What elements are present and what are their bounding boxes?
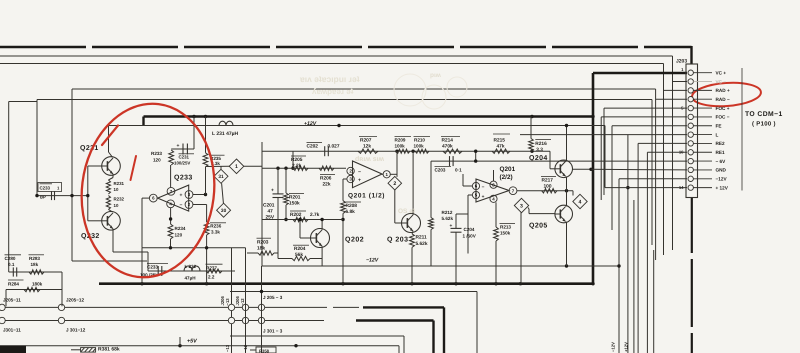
label Q232 — [81, 233, 100, 240]
faint print-through — [299, 72, 467, 215]
svg-text:150k: 150k — [289, 200, 300, 206]
wire bent line upper — [230, 292, 477, 353]
pin 6 of Q201 — [463, 174, 480, 190]
wire right dashed page border below connector — [691, 197, 693, 353]
svg-text:Q233: Q233 — [174, 175, 193, 182]
pin 7 of Q233 — [167, 165, 175, 195]
wire +12V to pin 14 — [605, 126, 687, 188]
resistor R210 — [414, 137, 431, 154]
svg-text:+: + — [358, 178, 361, 184]
label P100 — [752, 121, 776, 128]
svg-text:+12V: +12V — [624, 342, 629, 352]
transistor Q203 — [395, 151, 421, 232]
resistor R232 — [106, 196, 124, 210]
svg-text:+ 12V: + 12V — [716, 185, 729, 190]
svg-text:R233: R233 — [151, 151, 162, 156]
svg-text:3.3: 3.3 — [536, 147, 543, 153]
svg-text:dʀıʍ sıʍ: dʀıʍ sıʍ — [355, 155, 385, 163]
svg-text:L 232: L 232 — [185, 264, 197, 269]
svg-text:C203: C203 — [435, 168, 446, 173]
label TO CDM-1 — [745, 111, 783, 118]
node 1 diamond — [229, 159, 244, 174]
svg-text:R212: R212 — [442, 210, 453, 215]
wire diamond 1 to mid circuit — [244, 142, 262, 168]
label R381 — [98, 347, 120, 353]
svg-text:FOC −: FOC − — [716, 115, 730, 120]
resistor R216 — [529, 117, 551, 153]
svg-text:100k: 100k — [395, 144, 406, 149]
svg-text:C233: C233 — [40, 186, 51, 191]
svg-text:56k: 56k — [295, 252, 303, 258]
svg-text:30: 30 — [221, 208, 227, 214]
transistor Q205 — [529, 191, 573, 266]
wire J301-3 line — [0, 321, 434, 353]
resistor R213 — [494, 203, 515, 284]
node 2 diamond — [388, 151, 402, 223]
svg-text:+12V: +12V — [304, 121, 317, 127]
pin 7 of Q201 output — [509, 187, 573, 195]
svg-text:RAD +: RAD + — [716, 88, 730, 93]
svg-text:0.1: 0.1 — [8, 262, 15, 267]
pin 5 of Q201 — [468, 191, 480, 253]
svg-text:R211: R211 — [416, 235, 428, 241]
resistor R231 — [106, 180, 124, 194]
svg-text:10: 10 — [679, 150, 684, 155]
wire J206 verticals — [246, 248, 264, 353]
label Q203 — [387, 237, 409, 244]
svg-text:R207: R207 — [360, 138, 372, 144]
svg-text:+: + — [180, 192, 183, 198]
label J301-11 — [3, 328, 21, 333]
svg-text:L 231 47µH: L 231 47µH — [212, 131, 239, 137]
svg-text:R381 68k: R381 68k — [98, 347, 120, 353]
svg-text:−12: −12 — [243, 344, 248, 352]
svg-text:R217: R217 — [542, 178, 554, 184]
svg-text:−12V: −12V — [366, 258, 379, 264]
connector pads J205/J301 — [0, 304, 265, 324]
svg-text:R283: R283 — [29, 256, 40, 261]
label J205-11 — [3, 298, 21, 303]
svg-text:+: + — [271, 188, 274, 194]
svg-text:R214: R214 — [442, 138, 454, 144]
resistor R205 — [291, 156, 308, 170]
svg-text:R205: R205 — [291, 157, 303, 163]
svg-text:RE2: RE2 — [716, 141, 726, 146]
label -12V vertical — [611, 342, 616, 352]
svg-text:FE: FE — [716, 124, 722, 129]
svg-text:OS ǝʇ: OS ǝʇ — [398, 208, 416, 215]
svg-text:J 301 − 3: J 301 − 3 — [263, 329, 283, 334]
wire +5V rail — [0, 337, 399, 353]
wire BP cap node — [35, 194, 89, 197]
label -13 bottom — [225, 344, 230, 352]
inductor L232 — [184, 264, 200, 281]
svg-text:R210: R210 — [414, 138, 425, 143]
ic Q233 triangle — [158, 185, 189, 211]
svg-text:2.2: 2.2 — [208, 275, 215, 280]
svg-text:−: − — [180, 202, 183, 208]
svg-text:150k: 150k — [500, 231, 511, 236]
resistor R381 hatched box — [71, 348, 96, 353]
wire base bus Q231/Q232 — [88, 166, 102, 221]
svg-text:Q201 (1/2): Q201 (1/2) — [348, 193, 385, 200]
wire net line 5 — [37, 100, 652, 246]
svg-text:3.3k: 3.3k — [211, 230, 220, 235]
label +12V rail — [304, 121, 317, 127]
svg-text:100: 100 — [544, 184, 552, 190]
svg-text:4: 4 — [579, 199, 582, 205]
wire J205-3 line — [0, 307, 444, 353]
resistor R215 — [492, 134, 510, 153]
pin number 1 — [681, 67, 684, 72]
resistor R212 — [429, 161, 454, 266]
label J301-3 — [263, 329, 283, 334]
svg-text:120: 120 — [153, 158, 161, 163]
svg-text:−: − — [358, 169, 361, 175]
resistor R358 boxed — [250, 347, 276, 353]
label Q201 (1/2) — [348, 193, 385, 200]
svg-text:R201: R201 — [289, 194, 301, 200]
svg-text:Q202: Q202 — [345, 237, 364, 244]
svg-text:R206: R206 — [320, 175, 332, 181]
label J206-13 — [220, 296, 230, 306]
svg-text:47: 47 — [268, 209, 274, 215]
pin 3 of Q201 — [343, 175, 354, 200]
pin 1 of Q201 output — [382, 171, 397, 178]
svg-text:18k: 18k — [257, 246, 265, 252]
wire Q232 emitter — [113, 229, 148, 271]
svg-text:− 6V: − 6V — [716, 159, 727, 164]
inductor L231 — [212, 121, 239, 137]
svg-text:R236: R236 — [210, 224, 221, 229]
junction dots on VC+ rail — [192, 115, 594, 118]
svg-text:C201: C201 — [263, 203, 275, 209]
label Q201 (2/2) — [500, 166, 516, 181]
label J205-12 — [66, 298, 84, 303]
svg-text:2.7k: 2.7k — [310, 212, 320, 218]
wire thick bottom rail — [99, 282, 593, 285]
capacitor C233 BP (boxed) — [38, 183, 62, 201]
svg-text:R203: R203 — [257, 240, 269, 246]
wire -12V to pin 13 — [617, 179, 687, 353]
svg-text:VC −: VC − — [716, 79, 727, 84]
red stroke 2 — [131, 156, 137, 180]
wire fan to pins 6-10 — [520, 117, 687, 353]
wire lower node Q233 block — [142, 198, 246, 284]
resistor R203 — [247, 238, 278, 255]
svg-text:R237: R237 — [206, 266, 217, 271]
svg-text:C280: C280 — [5, 256, 16, 261]
svg-text:C202: C202 — [307, 144, 319, 150]
svg-text:ɐıʌ ǝʇɐɔıpuı ɹǝʇ: ɐıʌ ǝʇɐɔıpuı ɹǝʇ — [299, 74, 360, 84]
op-amp Q201 (1/2) — [353, 161, 383, 188]
pin 4 of Q233 — [167, 200, 175, 224]
pin 4 of Q201 — [490, 195, 497, 203]
wire R235 bottom to diamond — [206, 165, 231, 167]
svg-text:12k: 12k — [363, 144, 371, 150]
svg-text:47k: 47k — [497, 144, 505, 150]
svg-text:Q201: Q201 — [500, 166, 516, 173]
svg-text:10: 10 — [114, 203, 119, 208]
svg-text:1 /50V: 1 /50V — [463, 234, 477, 239]
transistor Q231 — [102, 157, 121, 176]
svg-text:14: 14 — [679, 185, 684, 190]
svg-text:Q 203: Q 203 — [387, 237, 409, 244]
wire VC- net (top line to pin 2) — [0, 56, 687, 250]
label J206-12 — [235, 296, 245, 306]
svg-text:−13: −13 — [225, 298, 230, 306]
svg-text:2: 2 — [393, 181, 396, 187]
red ellipse annotation left — [72, 96, 224, 285]
resistor R211 — [410, 231, 428, 284]
resistor R235 — [203, 153, 224, 167]
capacitor C202 — [307, 143, 340, 157]
label Q205 — [529, 223, 548, 230]
svg-text:0.027: 0.027 — [328, 144, 340, 150]
svg-text:5.62k: 5.62k — [442, 216, 454, 221]
svg-text:−12: −12 — [240, 298, 245, 306]
svg-text:J205−12: J205−12 — [66, 298, 84, 303]
resistor R234 — [168, 224, 186, 239]
svg-text:0·1: 0·1 — [455, 168, 462, 173]
svg-text:L: L — [716, 132, 719, 137]
capacitor C233 — [140, 263, 168, 277]
resistor R214 — [441, 137, 462, 154]
wire -6V line to pin 11 — [431, 150, 687, 163]
pin 2 of Q201 — [347, 167, 354, 174]
svg-text:C233: C233 — [147, 265, 158, 270]
wire bottom node — [148, 248, 235, 353]
transistor Q202 — [298, 218, 329, 266]
label Q231 — [80, 145, 99, 152]
svg-text:J301−11: J301−11 — [3, 328, 21, 333]
svg-text:1: 1 — [235, 164, 238, 170]
resistor R233 — [151, 150, 174, 165]
resistor R284 — [8, 280, 43, 292]
svg-text:R208: R208 — [346, 203, 358, 209]
svg-text:RAD −: RAD − — [716, 97, 730, 102]
pin number 5 — [681, 106, 684, 111]
svg-text:J 205 − 3: J 205 − 3 — [263, 295, 283, 300]
wire C231 node — [171, 117, 205, 153]
svg-text:−: − — [482, 185, 485, 190]
label +12V vertical — [624, 342, 629, 352]
svg-text:6.8k: 6.8k — [346, 209, 356, 215]
label Q233 — [174, 175, 193, 182]
svg-text:ʎɐʍpɐǝɹ ǝʇ: ʎɐʍpɐǝɹ ǝʇ — [312, 87, 354, 96]
svg-text:R213: R213 — [500, 225, 511, 230]
resistor R217 — [541, 176, 557, 193]
bracket line TO CDM-1 — [741, 68, 743, 191]
connector J203 body — [686, 64, 698, 198]
svg-text:TO CDM−1: TO CDM−1 — [745, 111, 783, 118]
connector pins with labels — [688, 70, 730, 190]
wire -12V rail — [262, 264, 620, 267]
capacitor C280 — [5, 255, 22, 277]
pin number 14 — [679, 185, 684, 190]
capacitor C231 — [174, 143, 194, 166]
wire FOC+ net to pin 5 — [604, 108, 687, 195]
wire left frame verticals — [9, 89, 147, 272]
svg-text:R209: R209 — [395, 138, 406, 143]
black bottom-left bar — [0, 346, 26, 353]
svg-text:100/25V: 100/25V — [174, 161, 190, 166]
resistor R207 — [358, 137, 378, 154]
svg-text:47µH: 47µH — [185, 276, 197, 281]
svg-text:5.62k: 5.62k — [416, 241, 428, 247]
label Q204 — [529, 155, 548, 162]
svg-text:470k: 470k — [442, 144, 453, 150]
svg-text:J203: J203 — [676, 59, 687, 65]
svg-text:Q205: Q205 — [529, 223, 548, 230]
resistor R208 — [341, 201, 361, 284]
svg-text:Q231: Q231 — [80, 145, 99, 152]
svg-text:R231: R231 — [114, 181, 125, 186]
resistor R209 — [395, 137, 412, 154]
svg-text:+: + — [482, 195, 485, 200]
label J301-12 — [66, 328, 86, 333]
wire GND line to pin 12 — [573, 168, 688, 171]
svg-text:−13: −13 — [225, 344, 230, 352]
svg-text:R284: R284 — [8, 281, 19, 286]
pin 6 of Q233 — [142, 194, 157, 202]
svg-text:pıʍ: pıʍ — [430, 72, 442, 79]
wire input network — [262, 167, 346, 170]
node 31 — [214, 166, 228, 183]
wire R232 to Q232 — [108, 210, 112, 212]
transistor Q232 — [102, 212, 121, 231]
svg-text:+: + — [177, 143, 180, 149]
pin 3 of Q233 — [185, 167, 207, 199]
svg-text:10: 10 — [114, 187, 119, 192]
label +5V — [187, 339, 197, 345]
wire bent line lower — [230, 336, 404, 353]
svg-text:+: + — [450, 224, 453, 229]
label J203 — [676, 59, 687, 65]
resistor R202 — [290, 211, 320, 222]
svg-text:31: 31 — [218, 174, 224, 180]
svg-text:18k: 18k — [31, 262, 39, 267]
pin 8 of Q201 — [490, 170, 497, 188]
pin number 10 — [679, 150, 684, 155]
svg-text:(2/2): (2/2) — [500, 174, 513, 181]
node 4 diamond — [573, 191, 587, 209]
op-amp Q201 (2/2) — [476, 179, 509, 202]
svg-text:R232: R232 — [114, 197, 125, 202]
wire C280 node — [6, 272, 62, 306]
svg-text:J 301−12: J 301−12 — [66, 328, 86, 333]
node 30 — [217, 183, 231, 217]
svg-text:R215: R215 — [494, 138, 506, 144]
svg-text:C204: C204 — [464, 227, 475, 232]
svg-text:−12V: −12V — [611, 342, 616, 352]
wire Q231 emitter to R231 — [108, 174, 113, 180]
node 3 diamond — [514, 198, 529, 283]
junction dots on bottom rail — [140, 282, 594, 285]
capacitor C203 — [435, 156, 463, 173]
svg-text:3: 3 — [520, 203, 523, 209]
wire top dashed page border — [0, 46, 692, 64]
svg-text:+5V: +5V — [187, 339, 197, 345]
svg-text:R216: R216 — [535, 141, 547, 147]
label -12 bottom — [243, 344, 248, 352]
svg-text:RE1: RE1 — [716, 150, 726, 155]
wire thick VC+ rail — [144, 73, 688, 284]
red stroke 1 — [102, 126, 118, 146]
resistor R237 — [206, 264, 223, 279]
resistor R236 — [204, 222, 226, 235]
svg-text:GND: GND — [716, 168, 727, 173]
transistor Q204 — [550, 124, 573, 191]
wire feedback chain — [262, 150, 550, 170]
wire Q231 collector riser — [109, 126, 113, 158]
svg-text:180k: 180k — [32, 281, 43, 286]
label J205-3 — [263, 295, 283, 300]
svg-text:22k: 22k — [323, 181, 331, 187]
label Q202 — [345, 237, 364, 244]
resistor R206 — [319, 166, 335, 187]
wire lower input node — [262, 168, 343, 266]
svg-text:FOC +: FOC + — [716, 106, 730, 111]
svg-text:VC +: VC + — [716, 71, 727, 76]
wire +12V rail — [108, 124, 605, 127]
capacitor C204 — [450, 214, 477, 284]
label -12V — [366, 258, 379, 264]
capacitor C201 — [263, 168, 284, 220]
svg-text:R202: R202 — [290, 212, 302, 218]
svg-text:R358: R358 — [259, 349, 270, 353]
svg-text:2.2k: 2.2k — [292, 163, 302, 169]
pin 2 of Q233 — [185, 201, 207, 222]
svg-text:100k: 100k — [414, 144, 425, 149]
svg-text:( P100 ): ( P100 ) — [752, 121, 776, 128]
wire RAD- net (box line to pin 4) — [72, 89, 687, 260]
resistor R201 — [284, 168, 304, 221]
svg-text:R204: R204 — [294, 246, 306, 252]
svg-text:C231: C231 — [179, 155, 190, 160]
wire RAD+ net (top line to pin 3) — [0, 64, 687, 256]
svg-text:BP: BP — [40, 195, 46, 200]
resistor R204 — [278, 220, 322, 261]
svg-text:−12V: −12V — [716, 177, 728, 182]
red ellipse annotation RAD — [691, 81, 761, 109]
resistor R283 — [29, 255, 45, 274]
svg-text:R234: R234 — [175, 226, 186, 231]
svg-text:120: 120 — [175, 233, 183, 238]
